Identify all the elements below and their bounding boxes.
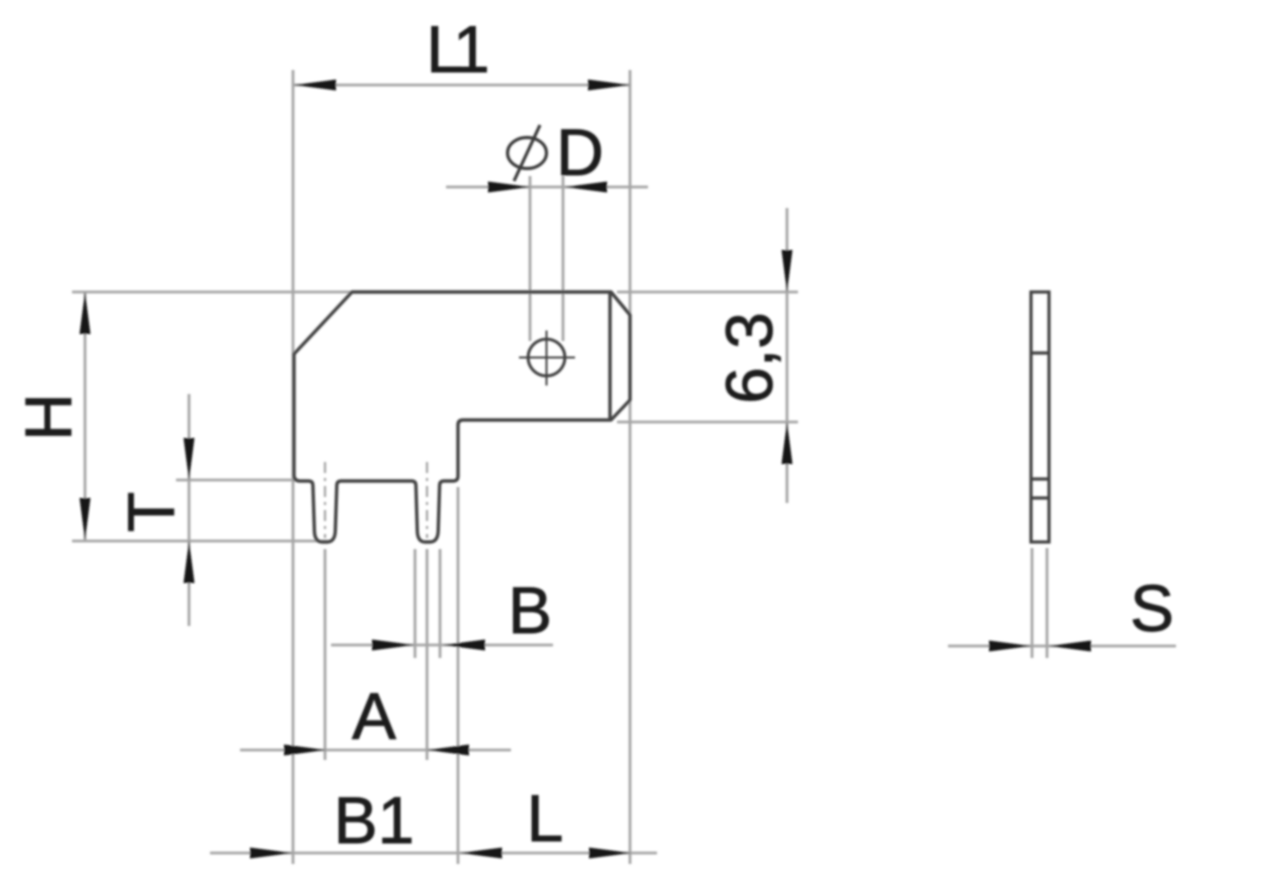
D left arrow — [488, 182, 530, 193]
H bottom arrow — [80, 498, 91, 540]
svg-text:A: A — [352, 679, 396, 753]
hole crosshair — [519, 331, 575, 386]
B dimension line — [331, 644, 553, 647]
H/T bottom extension line — [72, 540, 332, 543]
6,3 bottom arrow — [782, 422, 793, 464]
H dimension line — [84, 292, 87, 540]
6,3 top arrow — [782, 250, 793, 292]
side view tab line — [1031, 351, 1049, 354]
svg-text:6,3: 6,3 — [712, 312, 786, 404]
6,3 dimension line — [786, 208, 789, 503]
left leg centre extension line — [324, 549, 327, 760]
arrows — [80, 80, 1092, 859]
L right arrow — [589, 848, 631, 859]
D dimension line — [446, 186, 648, 189]
step edge extension line — [457, 487, 460, 864]
A right arrow — [427, 745, 469, 756]
side view profile — [1031, 292, 1049, 542]
diameter symbol — [508, 125, 547, 181]
B left arrow — [372, 640, 414, 651]
L1 dimension line — [294, 84, 630, 87]
side view left extension line — [1031, 548, 1034, 658]
right leg right edge extension line — [439, 549, 442, 658]
L1 right arrow — [588, 80, 630, 91]
T top arrow — [184, 438, 195, 480]
H top extension line — [72, 291, 352, 294]
L1/L right extension line — [629, 70, 632, 864]
svg-text:L1: L1 — [426, 12, 487, 86]
leg centre dash-dot lines — [325, 462, 427, 538]
tab tip fold line — [608, 292, 611, 420]
right leg centre extension line — [426, 549, 429, 760]
hole outline — [528, 339, 565, 376]
part outline (front view) — [294, 292, 630, 542]
S left arrow — [989, 641, 1031, 652]
6,3 top extension line — [617, 291, 798, 294]
B1 left arrow — [250, 848, 292, 859]
svg-text:S: S — [1130, 571, 1174, 645]
label 6,3 — [712, 312, 786, 404]
S dimension line — [948, 645, 1176, 648]
T bottom arrow — [184, 541, 195, 583]
label T — [114, 492, 188, 532]
hole left tangent extension line — [529, 176, 532, 341]
side view — [1031, 292, 1049, 542]
H top arrow — [80, 292, 91, 334]
side view right extension line — [1046, 548, 1049, 658]
B right arrow — [443, 640, 485, 651]
D right arrow — [565, 182, 607, 193]
S right arrow — [1049, 641, 1091, 652]
A dimension line — [240, 749, 511, 752]
side view leg shoulder line — [1031, 496, 1049, 499]
terminal body outline — [294, 292, 630, 542]
6,3 bottom extension line — [617, 421, 798, 424]
B1/L middle arrow — [460, 848, 502, 859]
extension and dimension lines (light gray) — [72, 70, 1176, 864]
svg-text:T: T — [114, 492, 188, 532]
L1 left arrow — [294, 80, 336, 91]
right leg left edge extension line — [414, 549, 417, 658]
svg-text:L: L — [527, 781, 564, 855]
left leg centreline — [324, 462, 326, 538]
right leg centreline — [426, 462, 428, 538]
label H — [11, 393, 85, 441]
T top extension line — [176, 479, 298, 482]
hole right tangent extension line — [562, 176, 565, 341]
L1/B1 left extension line — [292, 70, 295, 864]
svg-text:B1: B1 — [334, 783, 415, 857]
svg-text:B: B — [508, 573, 552, 647]
A left arrow — [284, 745, 326, 756]
B1 and L dimension line — [210, 852, 657, 855]
T dimension line — [188, 394, 191, 626]
svg-text:H: H — [11, 393, 85, 441]
svg-text:D: D — [556, 115, 604, 189]
side view body bottom line — [1031, 477, 1049, 480]
